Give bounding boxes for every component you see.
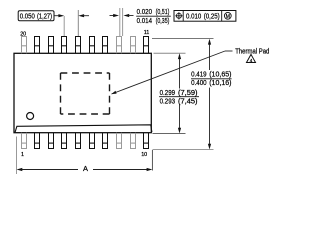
leader line to Thermal Pad (112, 51, 233, 94)
extension line A right (151, 150, 153, 171)
pitch dim arrow left (78, 14, 89, 17)
svg-text:(0,25): (0,25) (204, 12, 220, 21)
svg-text:0.293: 0.293 (160, 97, 176, 106)
svg-text:(0,51): (0,51) (156, 7, 170, 16)
lead width extension line a (119, 8, 121, 36)
svg-text:20: 20 (20, 31, 26, 37)
feature control frame true position 0.010 (0,25) M (174, 11, 236, 22)
dim 0.299 down arrowhead (178, 128, 181, 134)
pin 13 (grey) (116, 36, 122, 53)
pin 4 (61, 133, 67, 149)
package body outline (14, 53, 151, 132)
extension line A left (16, 137, 18, 175)
pin 18 (48, 36, 54, 53)
note triangle 4 (247, 54, 256, 63)
pin 3 (48, 133, 54, 149)
svg-text:4: 4 (250, 58, 253, 63)
dim 0.299 up arrowhead (178, 53, 181, 59)
pin 10 (143, 133, 149, 149)
value 0.419 (10,65) over 0.400 (10,16) (191, 69, 232, 87)
pin 15 (89, 36, 95, 53)
svg-text:(10,16): (10,16) (209, 78, 231, 87)
svg-text:10: 10 (141, 152, 147, 158)
pin 6 (89, 133, 95, 149)
pin 12 (grey) (130, 36, 136, 53)
pin 20 (top row, grey) (21, 36, 27, 53)
dim line 0.419 span (209, 44, 211, 144)
pin 19 (34, 36, 40, 53)
svg-text:0.020: 0.020 (137, 7, 152, 16)
lead width extension line b (122, 8, 124, 36)
thermal pad (dashed) (61, 73, 110, 114)
svg-text:(7,45): (7,45) (178, 97, 198, 106)
pin 1 (bottom row, grey) (21, 133, 27, 149)
lead width arrow left (110, 14, 120, 17)
value 0.299 (7,59) over 0.293 (7,45) (159, 88, 199, 106)
pin 17 (61, 36, 67, 53)
pin 1 index circle (27, 113, 34, 120)
svg-text:0.014: 0.014 (137, 16, 152, 25)
pin 11 (143, 36, 149, 53)
svg-text:(0,35): (0,35) (156, 16, 170, 25)
pitch dim arrow right (54, 14, 64, 17)
pin 7 (102, 133, 108, 149)
svg-text:A: A (83, 164, 88, 173)
svg-text:1: 1 (21, 152, 24, 158)
lead width value 0.020 (0,51) over 0.014 (0,35) (136, 7, 171, 25)
svg-text:0.010: 0.010 (186, 12, 201, 21)
extension line body bottom (153, 133, 186, 135)
svg-text:0.299: 0.299 (160, 88, 176, 97)
svg-text:(7,59): (7,59) (178, 88, 198, 97)
dim 0.419 down arrowhead (208, 144, 211, 150)
leader arrowhead (111, 91, 116, 94)
pin 2 (34, 133, 40, 149)
pitch extension line b (77, 10, 79, 36)
extension line bottom lead tips (153, 149, 214, 151)
dim line A with arrowheads (17, 168, 153, 171)
body bottom bevel edge (15, 125, 152, 133)
pin 14 (102, 36, 108, 53)
dim 0.419 up arrowhead (208, 39, 211, 45)
svg-text:0.400: 0.400 (191, 78, 207, 87)
extension line body top (154, 52, 186, 54)
extension line top lead tips (152, 38, 214, 40)
pin 9 (grey) (130, 133, 136, 149)
pin 8 (grey) (116, 133, 122, 149)
pin 5 (75, 133, 81, 149)
dim line 0.299 span (179, 58, 181, 129)
pin 16 (75, 36, 81, 53)
lead width arrow right (123, 14, 133, 17)
svg-text:M: M (226, 14, 230, 20)
boxed dimension 0.050 (1,27) (18, 11, 54, 21)
svg-text:Thermal Pad: Thermal Pad (235, 47, 269, 56)
svg-text:11: 11 (144, 30, 150, 36)
svg-text:0.050: 0.050 (20, 11, 35, 20)
svg-text:(1,27): (1,27) (37, 11, 52, 20)
pitch extension line a (63, 16, 65, 36)
